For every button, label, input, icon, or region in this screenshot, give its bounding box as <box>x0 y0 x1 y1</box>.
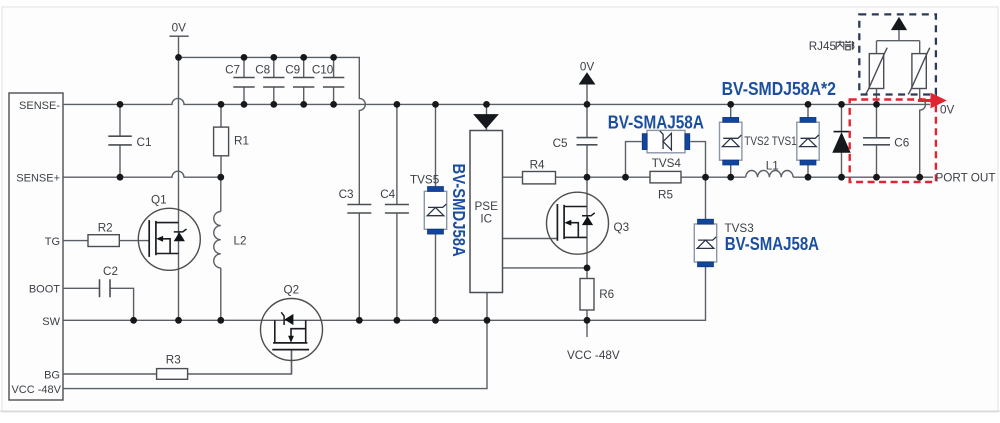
TVS2 <box>720 117 742 165</box>
svg-text:0V: 0V <box>580 60 595 73</box>
node C8 bottom <box>270 101 277 108</box>
wire R4 to R5 segment <box>556 176 651 178</box>
node TVS1 bottom <box>805 174 812 181</box>
capacitor C2 <box>100 279 111 297</box>
capacitor C1 <box>108 136 132 145</box>
svg-text:Q1: Q1 <box>151 194 167 207</box>
svg-text:C10: C10 <box>312 64 334 77</box>
node TVS4 right / TVS3 top <box>702 174 709 181</box>
wire R6 leads <box>586 268 588 320</box>
resistor R5 <box>650 171 681 183</box>
node Q1 source / SW <box>175 317 182 324</box>
svg-text:C3: C3 <box>339 188 354 201</box>
wire PSE IC pin to Q3 source junction <box>503 267 588 269</box>
svg-text:L1: L1 <box>766 159 779 172</box>
wire TVS4 left riser <box>626 142 642 178</box>
svg-text:C4: C4 <box>380 188 395 201</box>
wire C8 leads <box>273 57 275 104</box>
svg-text:R5: R5 <box>658 189 673 202</box>
wire VCC -48V stub label lead <box>586 320 588 337</box>
wire BOOT to C2 <box>63 287 100 289</box>
capacitor C7 <box>233 78 254 88</box>
svg-text:BV-SMAJ58A: BV-SMAJ58A <box>725 234 819 254</box>
big blue part number labels <box>449 79 836 257</box>
node D2 bottom <box>838 174 845 181</box>
capacitor C9 <box>293 78 314 88</box>
svg-text:VCC -48V: VCC -48V <box>567 349 620 362</box>
TVS4 <box>642 130 690 152</box>
svg-text:C7: C7 <box>225 64 240 77</box>
node R1 bottom / L2 top <box>217 174 224 181</box>
svg-text:R3: R3 <box>166 354 181 367</box>
wire TVS5 leads <box>435 104 437 320</box>
capacitor C4 <box>385 205 409 214</box>
wire C1 leads <box>119 104 121 177</box>
resistor R4 <box>523 172 556 184</box>
svg-text:BV-SMDJ58A*2: BV-SMDJ58A*2 <box>722 79 836 99</box>
node C1 top <box>117 101 124 108</box>
wire C10 leads <box>333 57 335 104</box>
RJ45 internal up arrow <box>892 18 907 30</box>
capacitor C8 <box>263 78 284 88</box>
svg-text:SENSE+: SENSE+ <box>16 173 60 185</box>
svg-text:TG: TG <box>45 236 60 248</box>
node C8 top <box>270 54 277 61</box>
svg-text:TVS5: TVS5 <box>410 174 440 187</box>
node D1 top <box>483 101 490 108</box>
node R1 top <box>218 101 225 108</box>
PSE IC U1 <box>470 131 503 293</box>
node R6 bottom / VCC -48V <box>584 317 591 324</box>
wire TVS4 right riser to TVS3 <box>690 142 705 220</box>
svg-text:R6: R6 <box>599 288 614 301</box>
node C4 top <box>394 101 401 108</box>
node L2 bottom / SW <box>217 317 224 324</box>
svg-text:Q2: Q2 <box>284 283 300 296</box>
svg-text:0V: 0V <box>172 22 187 35</box>
capacitor C5 <box>577 138 598 145</box>
wire SENSE- / 0V top bus <box>63 98 930 104</box>
svg-text:C6: C6 <box>894 137 909 150</box>
varistor RV2 <box>908 48 930 95</box>
capacitor plates <box>100 78 891 298</box>
RJ45 blue dashed box <box>859 14 936 94</box>
wire PSE IC pin to R4 <box>503 176 523 178</box>
svg-text:BOOT: BOOT <box>29 284 60 296</box>
svg-text:C1: C1 <box>137 136 152 149</box>
svg-text:C5: C5 <box>553 137 568 150</box>
svg-text:TVS3: TVS3 <box>725 222 754 235</box>
diode D2 to 0V <box>834 131 850 133</box>
TVS1 <box>797 117 819 165</box>
wire RJ45 arrow stem and feed tee <box>877 30 920 54</box>
node TVS2 top <box>727 101 734 108</box>
wire R2 to Q1 gate <box>119 240 149 242</box>
svg-text:0V: 0V <box>940 104 955 117</box>
red 0V arrow <box>918 99 931 102</box>
svg-text:TVS4: TVS4 <box>652 157 682 170</box>
svg-text:PSE: PSE <box>475 200 499 213</box>
wire left varistor to 0V bus <box>876 89 878 105</box>
wire right varistor to PORT OUT with hop <box>920 89 926 178</box>
transistor Q3 <box>547 192 609 254</box>
wire SENSE+ <box>63 171 221 177</box>
node C2 / SW <box>130 317 137 324</box>
node TVS1 top <box>805 101 812 108</box>
TVS3 <box>694 219 716 267</box>
inductor L1 <box>746 170 793 177</box>
svg-text:R2: R2 <box>98 221 113 234</box>
svg-text:IC: IC <box>480 212 492 225</box>
transistor Q2 <box>261 299 323 361</box>
svg-text:SW: SW <box>42 316 60 328</box>
wire R3 to Q2 gate <box>188 350 292 374</box>
node C5 top <box>584 101 591 108</box>
svg-text:C8: C8 <box>255 64 270 77</box>
svg-text:BG: BG <box>44 369 60 381</box>
power symbol 0V mid (up triangle) <box>579 73 594 84</box>
wire Q3 drain vertical <box>586 177 588 268</box>
node C10 top <box>330 54 337 61</box>
wire diode to PSE IC top <box>486 104 488 114</box>
svg-text:PORT OUT: PORT OUT <box>936 172 996 185</box>
wire diode D2 leads <box>841 104 843 177</box>
wire C4 leads <box>396 104 398 320</box>
node TVS5 bottom / SW <box>432 317 439 324</box>
wire C6 leads <box>876 104 878 177</box>
hanzi 内 of RJ45内部 <box>836 41 844 50</box>
wire C2 to SW <box>110 288 134 320</box>
svg-text:Q3: Q3 <box>614 221 630 234</box>
wire PSE IC pin to Q3 gate <box>503 238 558 240</box>
varistor RV1 <box>866 48 888 95</box>
svg-text:SENSE-: SENSE- <box>19 100 60 112</box>
diode D1 above PSE IC <box>474 115 498 129</box>
svg-text:TVS2 TVS1: TVS2 TVS1 <box>744 135 796 148</box>
node PSE IC / VCC rail / SW <box>484 317 491 324</box>
node C7 bottom <box>241 101 248 108</box>
ground 0V bar top-left <box>169 35 188 37</box>
wire 0V mid stem and C5 leads <box>586 84 588 177</box>
svg-text:R1: R1 <box>234 135 249 148</box>
node C10 bottom <box>330 101 337 108</box>
capacitor C10 <box>323 78 344 88</box>
protected port red dashed box <box>850 100 936 183</box>
node C6 bottom <box>873 174 880 181</box>
svg-text:L2: L2 <box>234 234 247 247</box>
node TVS4 left <box>622 174 629 181</box>
wire TG to R2 <box>63 240 88 242</box>
connector box <box>9 93 63 400</box>
node C3 bottom / SW <box>356 317 363 324</box>
resistor R2 <box>88 235 119 247</box>
svg-text:C2: C2 <box>103 265 118 278</box>
wire C7 leads <box>243 57 245 104</box>
node TVS5 top <box>432 101 439 108</box>
wire L1 to PORT OUT <box>793 176 933 178</box>
wire capacitor top bus C7-C10 with hop down to C3 <box>179 57 366 204</box>
wire SW bus to TVS3 riser <box>63 267 706 321</box>
svg-text:R4: R4 <box>530 159 545 172</box>
node TVS2 bottom <box>727 174 734 181</box>
node Q3 source / R6 top <box>584 265 591 272</box>
wire 0V vertical through Q1 <box>178 36 180 320</box>
svg-text:BV-SMDJ58A: BV-SMDJ58A <box>449 164 469 257</box>
node C1 bottom <box>117 174 124 181</box>
svg-text:RJ45: RJ45 <box>809 40 837 53</box>
node C5 bottom / Q3 drain <box>584 174 591 181</box>
wire R5 to L1 segment <box>681 176 746 178</box>
node C6 top / RV1 <box>873 101 880 108</box>
capacitor C3 <box>347 205 371 214</box>
node RV2 / PORT OUT <box>916 174 923 181</box>
svg-text:BV-SMAJ58A: BV-SMAJ58A <box>608 113 704 133</box>
wire C3 bottom lead <box>358 213 360 320</box>
hanzi 部 of RJ45内部 <box>845 41 854 50</box>
node D2 top <box>838 101 845 108</box>
wire TVS2 leads <box>730 104 732 177</box>
wire L2 branch vertical <box>220 177 222 211</box>
wire TVS1 leads <box>807 104 809 177</box>
wire BG to R3 <box>63 373 157 375</box>
transistor Q1 <box>138 208 200 270</box>
capacitor C6 <box>863 138 890 145</box>
node C9 bottom <box>300 101 307 108</box>
svg-text:C9: C9 <box>285 64 300 77</box>
wire C9 leads <box>303 57 305 104</box>
inductor L2 <box>214 212 221 268</box>
wire Q2 gate lead <box>291 350 293 374</box>
resistor R1 <box>214 127 229 156</box>
TVS5 <box>424 187 446 235</box>
wire R1 leads <box>220 104 222 177</box>
svg-text:VCC -48V: VCC -48V <box>11 384 61 396</box>
node C9 top <box>300 54 307 61</box>
wire VCC -48V rail up to PSE IC <box>63 293 487 389</box>
node C7 top <box>241 54 248 61</box>
resistor R3 <box>157 369 188 380</box>
resistor R6 <box>580 279 594 311</box>
resistors <box>88 127 681 379</box>
node: 0V bar / cap bus <box>175 54 182 61</box>
node C4 bottom / SW <box>394 317 401 324</box>
